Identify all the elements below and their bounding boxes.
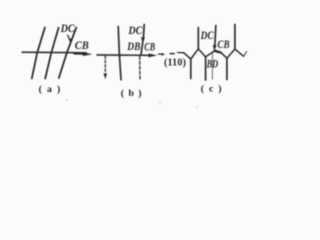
- panel a: CB arrow: [74, 52, 93, 56]
- panel b: dashed old position left (with down arrow): [104, 56, 106, 73]
- panel c: faint continuation of middle line below: [211, 53, 213, 80]
- panel c: bottom vertical V3: [226, 58, 228, 79]
- panel b: vertical line 1: [118, 27, 121, 80]
- svg-text:DB: DB: [127, 39, 141, 53]
- svg-text:(c): (c): [201, 83, 227, 94]
- panel b: dashed old position right: [139, 56, 141, 80]
- panel c: bottom vertical V2: [205, 57, 207, 80]
- svg-text:(a): (a): [39, 84, 66, 95]
- svg-text:DC: DC: [60, 21, 76, 35]
- panel b: vertical line 2 (DC): [141, 25, 144, 56]
- panel c: top vertical 3: [234, 25, 236, 50]
- panel b: surface arrowhead: [148, 54, 157, 58]
- svg-text:BD: BD: [206, 57, 219, 71]
- panel c: arrowhead on DC line: [213, 45, 217, 51]
- panel b: dash-arrow fragment: [158, 53, 162, 55]
- panel c: top vertical 1: [197, 28, 199, 50]
- svg-text:(b): (b): [121, 88, 146, 99]
- panel c: top vertical 2 (DC line): [214, 26, 217, 46]
- panel a: surface line: [22, 51, 86, 54]
- panel a: slip line 1: [32, 28, 45, 79]
- panel a: slip line 3: [59, 28, 77, 79]
- panel a: DC arrow: [68, 35, 70, 40]
- svg-text:CB: CB: [75, 38, 89, 52]
- panel c: surface trace stub from label: [184, 53, 191, 59]
- svg-text:DC: DC: [200, 28, 215, 42]
- svg-text:DC: DC: [128, 23, 144, 37]
- dash before panel c trace: [178, 52, 184, 54]
- panel c: junction thickening: [214, 51, 220, 53]
- svg-text:CB: CB: [217, 37, 229, 51]
- svg-text:CB: CB: [144, 40, 155, 54]
- svg-text:(110): (110): [164, 57, 186, 68]
- panel a: slip line 2: [45, 28, 58, 79]
- panel c: bottom vertical V1: [190, 59, 192, 79]
- panel b: surface line: [97, 54, 149, 56]
- panel c: zigzag trace: [191, 49, 244, 59]
- panel b: DC arrowhead on line 2: [141, 37, 145, 42]
- panel c: short right tail: [244, 52, 247, 57]
- faint scan specks: [66, 99, 67, 100]
